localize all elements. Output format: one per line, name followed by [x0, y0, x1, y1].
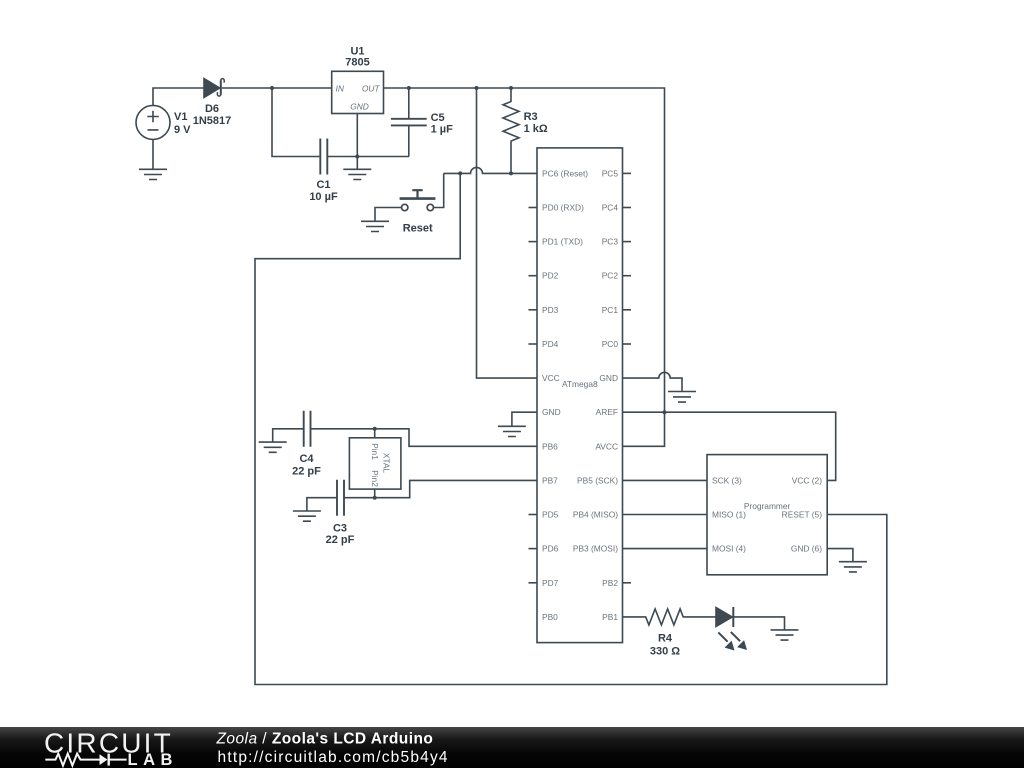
label U1 pin names [336, 83, 381, 111]
svg-text:PC5: PC5 [602, 168, 619, 178]
wire programmer GND to ground [827, 549, 853, 562]
ground U1 [343, 157, 371, 180]
svg-text:MISO (1): MISO (1) [712, 510, 746, 520]
ground programmer [839, 562, 867, 572]
svg-text:GND: GND [542, 407, 561, 417]
pin stub PD1 [529, 241, 538, 243]
node: R3 top [509, 86, 513, 90]
svg-text:PC3: PC3 [602, 237, 619, 247]
pin stub PD4 [529, 343, 538, 345]
svg-text:GND: GND [599, 373, 618, 383]
svg-text:V1: V1 [174, 111, 187, 123]
svg-text:U1: U1 [350, 45, 364, 57]
svg-text:1 µF: 1 µF [431, 124, 454, 136]
ground reset [361, 221, 389, 231]
wire C1 to GND node [328, 156, 409, 158]
svg-text:PC0: PC0 [602, 339, 619, 349]
svg-text:GND (6): GND (6) [791, 544, 822, 554]
diode D6 1N5817 [204, 79, 224, 98]
svg-text:OUT: OUT [362, 83, 381, 93]
wire PB6 to crystal top [311, 429, 537, 447]
svg-text:1 kΩ: 1 kΩ [524, 123, 548, 135]
LED D: triangle and bar [716, 607, 733, 627]
svg-text:PB5 (SCK): PB5 (SCK) [577, 475, 618, 485]
svg-text:1N5817: 1N5817 [193, 115, 232, 127]
wire MOSI [623, 548, 708, 550]
capacitor C1 [320, 139, 327, 175]
svg-text:R4: R4 [658, 633, 673, 645]
svg-text:C3: C3 [333, 522, 347, 534]
svg-text:IN: IN [336, 83, 345, 93]
node: C5 top [407, 86, 411, 90]
svg-text:22 pF: 22 pF [326, 534, 355, 546]
svg-text:SCK (3): SCK (3) [712, 475, 742, 485]
wire C5 bottom [408, 125, 410, 156]
svg-text:PB4 (MISO): PB4 (MISO) [573, 510, 618, 520]
pin stub PC4 [623, 207, 632, 209]
svg-text:PD5: PD5 [542, 510, 559, 520]
svg-text:C4: C4 [299, 453, 314, 465]
svg-text:R3: R3 [524, 111, 538, 123]
node: reset drop junction [458, 171, 462, 175]
wire SCK [623, 479, 708, 481]
ground left GND [498, 426, 526, 436]
svg-text:D6: D6 [205, 103, 219, 115]
IC ATmega8 box [537, 148, 623, 643]
IC Programmer box [707, 455, 827, 575]
svg-text:C1: C1 [316, 179, 330, 191]
pin stub PD7 [529, 582, 538, 584]
pin stub PD5 [529, 514, 538, 516]
ground right GND [668, 392, 696, 403]
svg-text:Pin2: Pin2 [370, 470, 380, 487]
pin stub PC5 [623, 172, 632, 174]
svg-text:PC1: PC1 [602, 305, 619, 315]
svg-text:GND: GND [350, 101, 369, 111]
svg-text:LAB: LAB [128, 751, 178, 768]
svg-text:Reset: Reset [403, 223, 433, 235]
capacitor C5 [391, 119, 427, 126]
node: crystal pin1 junction [373, 427, 377, 431]
node: input cap junction [270, 86, 274, 90]
svg-text:ATmega8: ATmega8 [562, 379, 598, 389]
svg-text:AREF: AREF [596, 407, 618, 417]
svg-text:10 µF: 10 µF [309, 191, 338, 203]
crystal XTAL box [349, 438, 401, 489]
resistor R3 [503, 88, 519, 173]
wire U1 OUT rail [384, 88, 665, 446]
svg-text:PD6: PD6 [542, 544, 559, 554]
wire MISO [623, 514, 708, 516]
wire AREF to programmer VCC [623, 412, 836, 480]
svg-text:7805: 7805 [345, 57, 369, 69]
ground LED [771, 630, 799, 640]
pin stub PB2 [623, 582, 632, 584]
svg-text:22 pF: 22 pF [292, 466, 321, 478]
svg-text:PB0: PB0 [542, 612, 558, 622]
svg-text:PD7: PD7 [542, 578, 559, 588]
wire reset left to ground [375, 208, 402, 222]
pin stub PD2 [529, 275, 538, 277]
wire reset right up to reset net [434, 173, 444, 207]
svg-text:PB2: PB2 [602, 578, 618, 588]
wire reset net to PC6 with hop [444, 167, 537, 173]
svg-text:Pin1: Pin1 [370, 443, 380, 460]
node: VCC drop junction [475, 86, 479, 90]
wire crystal pin1 stub [374, 429, 376, 438]
svg-text:XTAL: XTAL [382, 453, 392, 474]
wire LED to ground [733, 617, 784, 630]
wire left GND pin to ground [512, 412, 537, 426]
svg-text:PB1: PB1 [602, 612, 618, 622]
svg-text:330 Ω: 330 Ω [650, 646, 680, 658]
svg-text:PB6: PB6 [542, 441, 558, 451]
capacitor C3 [337, 480, 344, 516]
pushbutton Reset [400, 190, 436, 211]
svg-text:RESET (5): RESET (5) [782, 510, 823, 520]
pin stub PD0 [529, 207, 538, 209]
svg-text:VCC (2): VCC (2) [792, 475, 822, 485]
pin stub PD3 [529, 309, 538, 311]
svg-text:PC6 (Reset): PC6 (Reset) [542, 168, 588, 178]
wire C5 top [408, 88, 410, 119]
wire reset net long loop to programmer RESET [255, 173, 887, 684]
capacitor C4 [304, 411, 311, 447]
wire V1 bottom to ground [152, 139, 154, 169]
svg-text:VCC: VCC [542, 373, 560, 383]
wire VCC drop to ATmega8 VCC pin [477, 88, 538, 378]
svg-text:PC4: PC4 [602, 203, 619, 213]
svg-text:PD1 (TXD): PD1 (TXD) [542, 237, 583, 247]
logo resistor-diode symbol [45, 754, 126, 766]
svg-text:AVCC: AVCC [595, 441, 618, 451]
pin stub PC0 [623, 343, 632, 345]
wire crystal pin2 stub [374, 489, 376, 498]
svg-text:PC2: PC2 [602, 271, 619, 281]
wire C3 to ground [307, 498, 337, 511]
svg-text:PB3 (MOSI): PB3 (MOSI) [573, 544, 618, 554]
pin stub PD6 [529, 548, 538, 550]
svg-text:PD2: PD2 [542, 271, 559, 281]
ground C4 [259, 442, 287, 452]
wire PB7 to crystal bottom [344, 480, 537, 497]
node: U1 GND junction [355, 155, 359, 159]
wire right GND pin with hop to ground [623, 372, 683, 391]
node: R3 bottom junction [509, 171, 513, 175]
svg-text:PD4: PD4 [542, 339, 559, 349]
wire node down to bottom rail [272, 88, 320, 157]
svg-text:9 V: 9 V [174, 124, 191, 136]
node: AREF-AVCC junction [663, 410, 667, 414]
svg-text:http://circuitlab.com/cb5b4y4: http://circuitlab.com/cb5b4y4 [218, 749, 449, 766]
svg-text:PD0 (RXD): PD0 (RXD) [542, 203, 584, 213]
svg-text:PB7: PB7 [542, 475, 558, 485]
op-amp U1 7805 regulator box [332, 71, 384, 113]
pin stub PC1 [623, 309, 632, 311]
footer bar [0, 727, 1024, 768]
voltage source V1 [136, 105, 170, 139]
wire diode to U1 IN [222, 87, 332, 89]
LED arrows [718, 632, 747, 651]
svg-text:Programmer: Programmer [744, 501, 791, 511]
svg-text:Zoola / Zoola's LCD Arduino: Zoola / Zoola's LCD Arduino [216, 731, 434, 748]
ground C3 [293, 511, 321, 521]
ground V1 [139, 169, 167, 179]
wire U1 GND pin [356, 114, 358, 157]
pin stub PC3 [623, 241, 632, 243]
node: crystal pin2 junction [373, 496, 377, 500]
resistor R4 [623, 609, 717, 625]
wire C4 to ground [273, 429, 304, 442]
svg-text:MOSI (4): MOSI (4) [712, 544, 746, 554]
svg-text:C5: C5 [431, 112, 445, 124]
wire V1 top to rail [153, 88, 205, 105]
svg-text:PD3: PD3 [542, 305, 559, 315]
pin stub PC2 [623, 275, 632, 277]
